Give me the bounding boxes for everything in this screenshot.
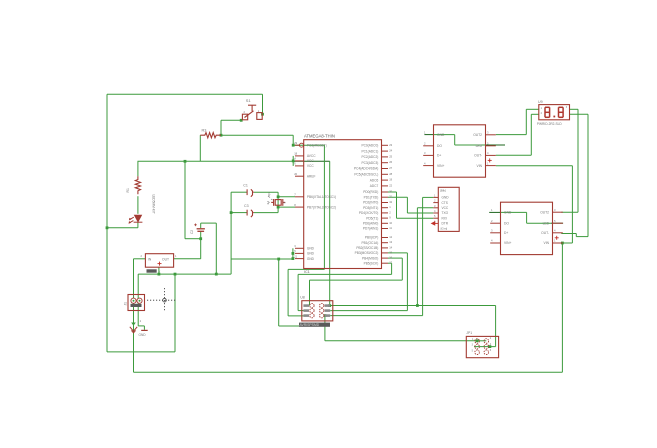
svg-text:18: 18	[294, 152, 297, 156]
svg-text:IC1: IC1	[304, 270, 310, 274]
svg-text:2: 2	[424, 142, 426, 146]
svg-text:5: 5	[472, 349, 474, 352]
svg-text:29: 29	[294, 141, 297, 145]
svg-text:PB5(SCK): PB5(SCK)	[364, 261, 379, 265]
wire XTAL1 to IC1	[278, 196, 295, 198]
svg-text:GND: GND	[504, 210, 512, 214]
svg-text:17: 17	[389, 261, 392, 265]
wire VCC U8 to FTDI pin3 and JP1	[330, 305, 495, 307]
wire J1 right pin to GND rail	[137, 274, 139, 298]
wire U9 pin4 to IC2 OUT-	[570, 113, 589, 115]
wire RESET net R3 to IC1	[221, 134, 293, 136]
svg-text:PD5(T1): PD5(T1)	[366, 216, 378, 220]
wire GND riser to rail	[174, 274, 176, 352]
svg-text:2: 2	[141, 254, 143, 258]
wire AVCC VCC tie	[292, 156, 294, 166]
svg-text:PB3(MOSI/OC2): PB3(MOSI/OC2)	[355, 251, 379, 255]
svg-text:4: 4	[424, 161, 426, 165]
svg-text:1: 1	[491, 208, 493, 212]
svg-text:25: 25	[389, 154, 392, 158]
wire PD1 to FTDI TXO	[388, 196, 407, 198]
svg-text:OUT2: OUT2	[473, 133, 482, 137]
svg-text:VCC: VCC	[442, 206, 449, 210]
svg-text:VCC: VCC	[307, 159, 314, 163]
wire IC2 GND net	[489, 211, 500, 213]
svg-text:PB4(MISO): PB4(MISO)	[362, 256, 378, 260]
svg-text:2: 2	[490, 337, 492, 340]
wire IC3 VIN to IC2 VIN	[496, 165, 573, 167]
svg-text:5: 5	[554, 219, 556, 223]
svg-text:DTR: DTR	[442, 222, 449, 226]
svg-text:Q1: Q1	[267, 192, 271, 196]
wire C1 right to XTAL ladder	[254, 191, 278, 193]
wire GND rail	[138, 273, 231, 275]
svg-text:VCC: VCC	[307, 164, 314, 168]
svg-text:7: 7	[294, 193, 296, 197]
svg-text:19: 19	[389, 178, 392, 182]
svg-text:GND: GND	[437, 133, 445, 137]
wire VCC into IC1 to U8	[293, 160, 330, 162]
wire regulator GND pin to rail	[158, 267, 160, 274]
svg-text:VIN: VIN	[544, 241, 550, 245]
IC1 right pins	[382, 144, 389, 146]
svg-text:AVRISPSMD: AVRISPSMD	[300, 323, 320, 327]
svg-text:JP1: JP1	[466, 331, 472, 335]
svg-text:24: 24	[389, 149, 392, 153]
svg-text:3: 3	[424, 151, 426, 155]
svg-text:DO: DO	[437, 144, 442, 148]
svg-text:3: 3	[491, 229, 493, 233]
capacitor C2 polarized	[197, 229, 205, 232]
svg-text:PD6(AIN0): PD6(AIN0)	[363, 222, 378, 226]
wire IC3 OUT- to U9 pin2	[496, 154, 532, 156]
wire VCC down to JP1 row2	[495, 306, 497, 347]
wire GND branch down to U8 net	[278, 259, 280, 326]
svg-text:U9: U9	[538, 100, 543, 104]
svg-text:PC0(ADC0): PC0(ADC0)	[361, 144, 378, 148]
svg-text:OUT-: OUT-	[541, 231, 549, 235]
svg-text:4: 4	[491, 239, 493, 243]
pushbutton S1	[242, 105, 262, 120]
svg-text:VIN: VIN	[477, 164, 483, 168]
svg-text:PD7(AIN1): PD7(AIN1)	[363, 227, 378, 231]
svg-text:30: 30	[389, 190, 392, 194]
svg-text:DO: DO	[504, 221, 509, 225]
wire VCC corner to R1 top	[137, 161, 139, 176]
wire regulator IN	[134, 258, 146, 260]
svg-text:ADC6: ADC6	[370, 178, 379, 182]
wire J1 left pin to regulator IN	[133, 259, 135, 299]
svg-text:R3: R3	[202, 129, 207, 133]
wire GND bottom of left loop	[107, 351, 175, 353]
wire XTAL ladder	[277, 192, 279, 212]
svg-text:PC5(ADC5/SCL): PC5(ADC5/SCL)	[354, 173, 378, 177]
svg-text:1: 1	[175, 254, 177, 258]
svg-text:14: 14	[389, 245, 392, 249]
svg-text:VIN+: VIN+	[504, 241, 511, 245]
IC1 left pins	[300, 143, 304, 147]
svg-text:CTS: CTS	[442, 201, 448, 205]
svg-text:3: 3	[566, 106, 568, 109]
svg-text:PD2(INT0): PD2(INT0)	[363, 201, 378, 205]
svg-text:4: 4	[487, 151, 489, 155]
wire C3 left lead	[231, 212, 247, 214]
svg-text:2: 2	[244, 110, 246, 114]
svg-text:LED: LED	[543, 221, 550, 225]
svg-text:GND: GND	[307, 252, 315, 256]
wire MISO chain PB4 to U8	[309, 280, 311, 306]
capacitor C3	[247, 210, 254, 217]
svg-text:4: 4	[554, 229, 556, 233]
svg-text:S1: S1	[246, 98, 252, 103]
voltage regulator IC2A	[145, 254, 173, 268]
origin crosshair	[147, 288, 176, 312]
svg-text:-/: -/	[159, 269, 161, 273]
svg-text:OUT2: OUT2	[540, 210, 549, 214]
svg-text:4: 4	[490, 343, 492, 346]
svg-text:GND: GND	[442, 196, 450, 200]
svg-text:ADC7: ADC7	[370, 184, 379, 188]
wire IC3 OUT2 to U9 pin1	[496, 134, 527, 136]
wire RESET over IC1 to U8	[293, 144, 324, 146]
svg-text:VIN+: VIN+	[437, 164, 444, 168]
wire IC1 GND pins to GND net	[231, 258, 293, 260]
crystal Q1	[275, 200, 281, 206]
svg-text:D+: D+	[504, 231, 508, 235]
wire U9 pin3 to IC2 OUT2	[570, 108, 579, 110]
svg-text:IN: IN	[148, 257, 152, 261]
svg-text:PC3(ADC3): PC3(ADC3)	[361, 161, 378, 165]
svg-text:PC2(ADC2): PC2(ADC2)	[361, 155, 378, 159]
svg-text:4: 4	[434, 209, 436, 213]
svg-text:PWRID-2R2-SLD: PWRID-2R2-SLD	[537, 122, 562, 126]
svg-text:2: 2	[140, 320, 142, 323]
svg-text:PD4(XCK/T0): PD4(XCK/T0)	[359, 211, 378, 215]
LED D1	[129, 215, 142, 223]
svg-text:12: 12	[389, 235, 392, 239]
svg-text:3: 3	[554, 208, 556, 212]
earth symbol	[131, 323, 136, 326]
microcontroller IC1 ATMEGA8-THIN	[304, 140, 382, 269]
wire IC3 GND net	[424, 134, 433, 136]
ground symbol GND	[141, 329, 148, 331]
svg-text:2: 2	[491, 219, 493, 223]
svg-text:GND: GND	[307, 247, 315, 251]
svg-text:GND: GND	[307, 257, 315, 261]
wire XTAL2 to IC1	[278, 206, 295, 208]
svg-text:C3: C3	[244, 204, 249, 208]
svg-text:PB2(SS/OC1B): PB2(SS/OC1B)	[356, 246, 378, 250]
svg-text:[Blk]: [Blk]	[440, 189, 446, 193]
svg-text:3: 3	[434, 204, 436, 208]
svg-text:1: 1	[554, 239, 556, 243]
svg-text:23: 23	[389, 143, 392, 147]
svg-text:3: 3	[472, 344, 474, 347]
svg-text:PC6(/RESET): PC6(/RESET)	[307, 143, 327, 147]
svg-text:1: 1	[133, 295, 135, 298]
connector U8 AVRISP-SMD	[302, 301, 333, 321]
svg-text:U8: U8	[300, 296, 305, 300]
svg-text:GND: GND	[139, 333, 147, 337]
svg-text:20: 20	[294, 172, 297, 176]
wire VCC branch down to C2 junction	[184, 161, 186, 238]
wire S1 top contact	[262, 94, 264, 113]
svg-text:PD0(RXD): PD0(RXD)	[363, 190, 378, 194]
svg-text:16: 16	[389, 256, 392, 260]
wire MOSI chain PB3 to U8	[330, 310, 407, 312]
svg-text:1: 1	[434, 193, 436, 197]
wire LED to GND rail	[137, 222, 139, 228]
wire SCK chain PB5 to U8	[297, 274, 299, 310]
svg-text:ATMEGA8-THIN: ATMEGA8-THIN	[304, 134, 335, 139]
wire C2 leads	[200, 223, 202, 228]
motor driver IC3	[434, 125, 486, 177]
svg-text:27: 27	[389, 166, 392, 170]
wire regulator OUT	[174, 258, 201, 260]
motor driver IC2	[501, 202, 553, 254]
svg-text:D+: D+	[437, 154, 441, 158]
svg-text:PD1(TXD): PD1(TXD)	[364, 195, 379, 199]
capacitor C1	[247, 189, 254, 196]
junction dots	[184, 160, 187, 163]
svg-text:10: 10	[389, 221, 392, 225]
resistor R3	[200, 133, 221, 138]
wire R3 left to VCC	[199, 135, 201, 161]
display U9 7-segment	[539, 105, 570, 120]
svg-text:LED5MM-KIT: LED5MM-KIT	[152, 195, 156, 214]
wire C2 top to GND rail	[201, 222, 217, 224]
svg-text:15: 15	[389, 250, 392, 254]
svg-text:2: 2	[541, 112, 543, 115]
svg-text:1: 1	[487, 161, 489, 165]
connector JP1	[466, 336, 498, 357]
svg-text:PD3(INT1): PD3(INT1)	[363, 206, 378, 210]
svg-text:4: 4	[294, 157, 296, 161]
wire C3 right lead to ladder	[254, 212, 278, 214]
wire J1 left pin down through earth to bottom rail	[133, 303, 135, 372]
svg-text:C1: C1	[243, 184, 248, 188]
wire IC2 VIN to bottom rail	[561, 243, 563, 372]
svg-text:6: 6	[490, 349, 492, 352]
svg-text:5: 5	[434, 214, 436, 218]
svg-text:3: 3	[294, 244, 296, 248]
wire bottom rail	[134, 371, 563, 373]
svg-text:2: 2	[434, 199, 436, 203]
svg-text:13: 13	[389, 240, 392, 244]
svg-text:TXO: TXO	[442, 211, 449, 215]
svg-text:OUT: OUT	[162, 257, 169, 261]
svg-text:3: 3	[487, 131, 489, 135]
wire VCC horizontal	[138, 160, 294, 162]
wire GND U8 to FTDI pin1	[330, 315, 422, 317]
wire J1 right pin to GND symbol	[137, 303, 139, 326]
svg-text:PB1(OC1A): PB1(OC1A)	[361, 241, 378, 245]
wire U8 GND to JP1	[324, 316, 326, 341]
FTDI DTR arrow	[432, 222, 439, 225]
wire JP1 row1	[477, 340, 486, 342]
svg-text:AREF: AREF	[307, 174, 316, 178]
svg-text:31: 31	[389, 195, 392, 199]
svg-text:26: 26	[389, 160, 392, 164]
svg-text:2: 2	[389, 210, 391, 214]
svg-text:RXI: RXI	[442, 216, 447, 220]
svg-text:28: 28	[389, 172, 392, 176]
wire GND left rail	[106, 94, 108, 352]
wire GND left rail top	[107, 93, 263, 95]
svg-text:PB7(XTAL2/TOSC2): PB7(XTAL2/TOSC2)	[307, 205, 336, 209]
svg-text:OUT-: OUT-	[474, 154, 482, 158]
svg-text:PB0(ICP): PB0(ICP)	[365, 236, 378, 240]
svg-text:PC1(ADC1): PC1(ADC1)	[361, 149, 378, 153]
wire C1 left lead	[231, 191, 247, 193]
svg-text:11: 11	[389, 226, 392, 230]
wire S1 left contact to R3	[221, 119, 241, 121]
resistor R1 vertical	[135, 176, 140, 194]
wire R1 to LED	[137, 196, 139, 214]
svg-text:PC4(ADC4/SDA): PC4(ADC4/SDA)	[354, 167, 378, 171]
svg-text:1: 1	[541, 107, 543, 110]
svg-text:J1: J1	[124, 302, 128, 306]
connector FTDI basic header	[438, 187, 459, 231]
svg-text:1: 1	[389, 205, 391, 209]
svg-text:6: 6	[294, 162, 296, 166]
svg-text:C2: C2	[190, 230, 194, 234]
svg-text:PB6(XTAL1/TOSC1): PB6(XTAL1/TOSC1)	[307, 195, 336, 199]
svg-text:1: 1	[424, 131, 426, 135]
svg-text:21: 21	[294, 254, 297, 258]
svg-text:R1: R1	[126, 188, 130, 192]
svg-text:5: 5	[294, 249, 296, 253]
svg-text:22: 22	[389, 183, 392, 187]
svg-text:9: 9	[389, 216, 391, 220]
wire PD0 to FTDI RXI	[388, 191, 397, 193]
wire caps GND column	[230, 192, 232, 274]
svg-text:LED: LED	[476, 144, 483, 148]
svg-text:[Grn]: [Grn]	[441, 227, 448, 231]
svg-text:AVCC: AVCC	[307, 154, 316, 158]
connector J1 power jack	[128, 295, 145, 311]
svg-text:32: 32	[389, 200, 392, 204]
svg-text:8: 8	[294, 203, 296, 207]
